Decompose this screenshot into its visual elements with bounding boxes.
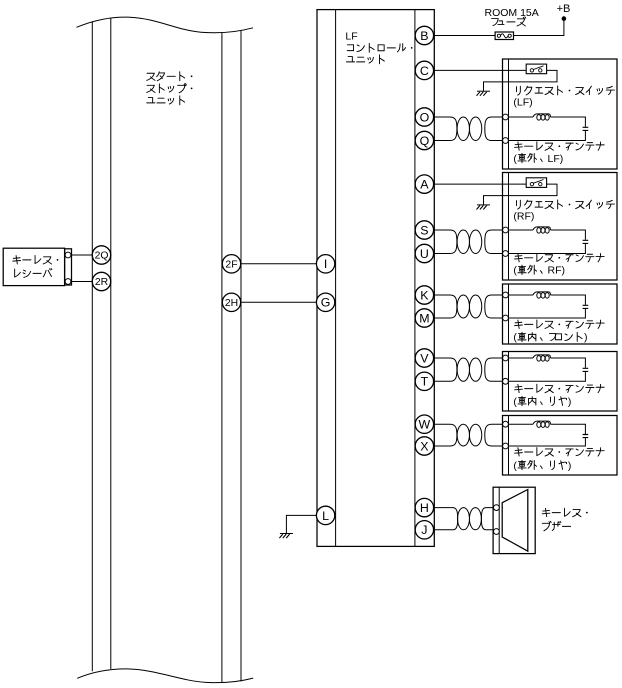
buzzer pin J side [494, 529, 500, 535]
connector J [415, 521, 433, 539]
svg-text:(RF): (RF) [513, 211, 534, 223]
request switch + keyless antenna box (LF) [503, 59, 618, 169]
antenna pin K side [503, 292, 509, 298]
wire C to request switch LF [434, 69, 527, 71]
keyless buzzer box with speaker symbol [493, 487, 535, 553]
connector I [316, 255, 334, 273]
twisted pair S-U [434, 230, 503, 254]
antenna pin Q side [503, 138, 509, 144]
connector K [415, 286, 433, 304]
svg-text:Q: Q [420, 134, 430, 148]
keyless antenna coil+capacitor (車外 RF) [508, 227, 588, 254]
wire request switch LF to ground [484, 70, 558, 91]
connector W [415, 415, 433, 433]
svg-text:2R: 2R [95, 277, 109, 288]
label キーレス・アンテナ (車内、リヤ) [513, 384, 604, 408]
LF control unit box [317, 10, 434, 547]
label キーレス・アンテナ (車内、フロント) [513, 320, 604, 344]
fuse ROOM 15A フューズ [485, 7, 539, 40]
connector G [316, 293, 334, 311]
keyless antenna box (車外 リヤ) [503, 416, 618, 476]
twisted pair O-Q [434, 117, 503, 141]
svg-text:(: ( [513, 332, 517, 344]
keyless antenna box (車内 フロント) [503, 284, 618, 344]
svg-text:(: ( [513, 460, 517, 472]
antenna pin O side [503, 114, 509, 120]
svg-text:G: G [321, 296, 331, 310]
LF control unit label LF コントロール・ユニット [345, 30, 412, 63]
keyless antenna coil+capacitor (車外 リヤ) [508, 421, 588, 446]
svg-text:I: I [324, 257, 327, 271]
svg-text:C: C [420, 64, 429, 78]
wire 2H to G [241, 301, 317, 303]
connector O [415, 108, 433, 126]
receiver pin (upper) [65, 252, 71, 258]
wire receiver to 2R [71, 281, 92, 283]
keyless receiver box キーレス・レシーバ [3, 248, 71, 285]
twisted pair H-J [434, 508, 494, 530]
node +B [557, 3, 571, 21]
receiver pin (lower) [65, 279, 71, 285]
ground (L) [279, 534, 293, 539]
connector A [415, 175, 433, 193]
antenna pin V side [503, 355, 509, 361]
svg-text:U: U [420, 247, 429, 261]
svg-text:W: W [419, 418, 431, 432]
connector U [415, 244, 433, 262]
label リクエスト・スイッチ (LF) [513, 86, 614, 109]
svg-text:(LF): (LF) [513, 97, 532, 109]
svg-text:K: K [420, 288, 429, 302]
svg-text:2F: 2F [225, 259, 237, 270]
ground (request switch LF) [477, 91, 491, 96]
svg-text:LF: LF [345, 30, 357, 42]
svg-text:T: T [421, 375, 429, 389]
connector 2F [222, 255, 240, 273]
svg-text:(: ( [513, 265, 517, 277]
svg-text:H: H [420, 501, 429, 515]
svg-text:J: J [421, 523, 427, 537]
connector M [415, 309, 433, 327]
svg-text:2Q: 2Q [95, 251, 109, 262]
label リクエスト・スイッチ (RF) [513, 200, 614, 223]
label キーレス・ブザー [542, 508, 588, 531]
twisted pair W-X [434, 424, 503, 446]
wire request switch RF to ground [484, 184, 558, 205]
svg-text:M: M [419, 311, 429, 325]
svg-text:S: S [420, 223, 428, 237]
request switch SW (RF) [526, 178, 546, 188]
wire B to fuse to +B [434, 19, 564, 36]
svg-text:): ) [584, 332, 588, 344]
svg-text:2H: 2H [225, 298, 238, 309]
antenna pin U side [503, 251, 509, 257]
keyless antenna coil+capacitor (車外 LF) [508, 114, 588, 141]
svg-text:L: L [322, 509, 329, 523]
connector T [415, 372, 433, 390]
start-stop unit box (torn edges) [77, 17, 254, 683]
antenna pin W side [503, 421, 509, 427]
twisted pair V-T [434, 358, 503, 381]
antenna pin M side [503, 315, 509, 321]
antenna pin T side [503, 378, 509, 384]
svg-text:+B: +B [557, 3, 571, 15]
wire A to request switch RF [434, 183, 527, 185]
svg-text:V: V [420, 351, 429, 365]
svg-text:(: ( [513, 396, 517, 408]
keyless antenna coil+capacitor (車内 リヤ) [508, 355, 588, 381]
request switch + keyless antenna box (RF) [503, 173, 618, 281]
keyless antenna box (車内 リヤ) [503, 352, 618, 412]
wire 2F to I [241, 263, 317, 265]
svg-text:): ) [568, 460, 572, 472]
svg-text:): ) [568, 396, 572, 408]
svg-text:B: B [420, 29, 428, 43]
connector S [415, 221, 433, 239]
buzzer pin H side [494, 505, 500, 511]
ground (request switch RF) [477, 205, 491, 210]
connector 2R [92, 272, 110, 290]
connector V [415, 349, 433, 367]
twisted pair K-M [434, 295, 503, 318]
wire receiver to 2Q [71, 254, 92, 256]
connector H [415, 498, 433, 516]
start-stop unit label スタート・ストップ・ユニット [147, 72, 193, 105]
connector 2Q [92, 246, 110, 264]
antenna pin S side [503, 227, 509, 233]
svg-text:RF): RF) [548, 265, 566, 277]
connector B [415, 26, 433, 44]
label キーレス・アンテナ (車外、LF) [513, 142, 604, 165]
label キーレス・アンテナ (車外、RF) [513, 253, 604, 276]
connector C [415, 61, 433, 79]
svg-text:(: ( [513, 153, 517, 165]
svg-text:A: A [420, 178, 429, 192]
connector Q [415, 131, 433, 149]
svg-text:X: X [420, 439, 428, 453]
svg-text:O: O [420, 110, 430, 124]
label キーレス・アンテナ (車外、リヤ) [513, 448, 604, 472]
connector 2H [222, 293, 240, 311]
connector X [415, 437, 433, 455]
wire L to ground [286, 515, 316, 533]
antenna pin X side [503, 443, 509, 449]
connector L [316, 506, 334, 524]
keyless antenna coil+capacitor (車内 フロント) [508, 292, 588, 318]
svg-text:フ: フ [490, 17, 501, 29]
svg-text:LF): LF) [548, 153, 564, 165]
request switch SW (LF) [526, 64, 546, 74]
